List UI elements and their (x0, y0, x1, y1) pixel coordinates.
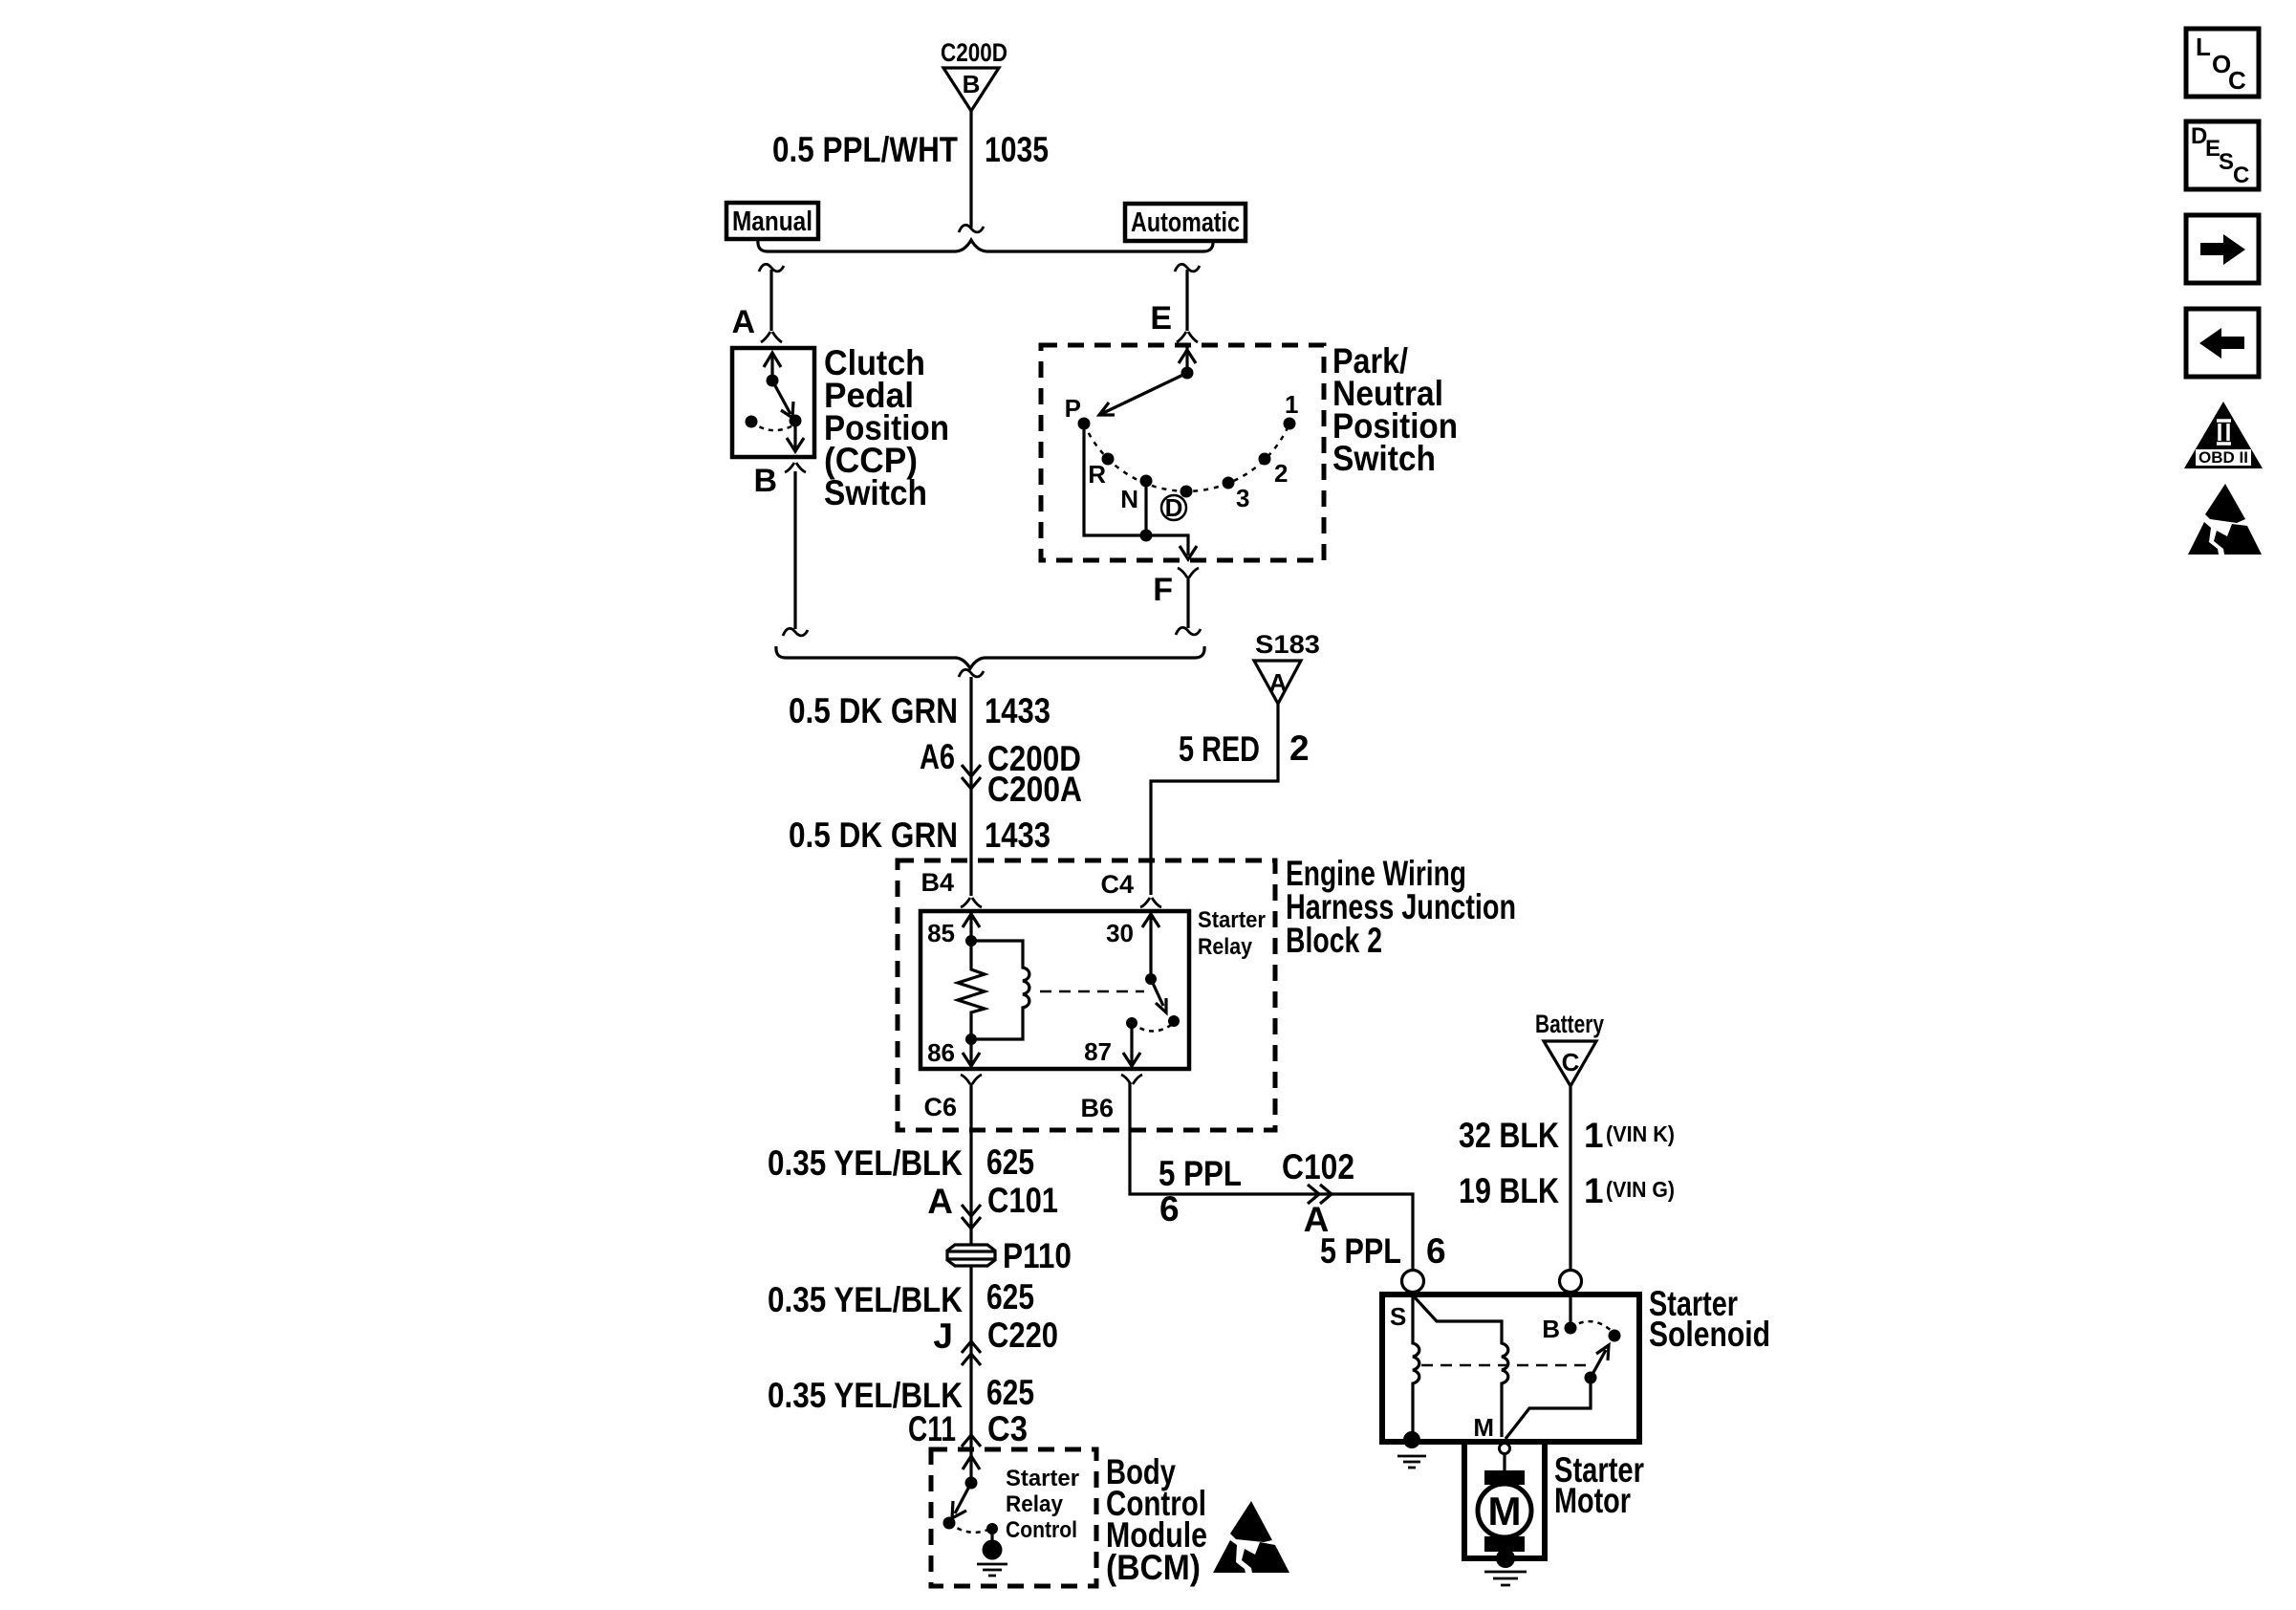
sidebar OBD II symbol (2184, 402, 2263, 468)
BCM input arrow (963, 1451, 980, 1483)
solenoid NO contact dot (1609, 1330, 1621, 1342)
Body Control Module dashed box (931, 1449, 1096, 1586)
svg-text:0.5 DK GRN: 0.5 DK GRN (789, 691, 958, 730)
CCP switch arm with arrowhead (772, 381, 793, 418)
relay coil (971, 941, 1029, 1039)
svg-text:OBD II: OBD II (2199, 448, 2248, 467)
svg-text:B4: B4 (921, 868, 954, 897)
svg-text:1: 1 (1285, 390, 1298, 419)
svg-text:B: B (753, 463, 777, 499)
PNP switch input arrow from E (1179, 346, 1196, 373)
relay NO contact dot (1168, 1015, 1180, 1027)
solenoid hold-in branch wire (1415, 1297, 1508, 1437)
starter relay label (1198, 907, 1266, 960)
connector symbol at F (1178, 568, 1199, 577)
wire break symbol below C200D wire (959, 225, 984, 232)
svg-text:S183: S183 (1255, 630, 1320, 659)
solenoid pull-in coil wire (1413, 1293, 1419, 1439)
svg-text:B: B (1542, 1315, 1560, 1343)
svg-text:(VIN G): (VIN G) (1606, 1177, 1675, 1202)
wire F down to splice brace (1186, 577, 1189, 628)
break symbol below bottom brace (959, 669, 984, 677)
wire branch E break symbol (1175, 264, 1200, 272)
starter relay box (921, 911, 1189, 1069)
relay resistor (958, 941, 985, 1039)
BCM switch arm with arrowhead (952, 1483, 971, 1518)
svg-text:A: A (927, 1182, 953, 1221)
fuse P110 symbol (947, 1245, 995, 1266)
motor wire from M terminal (1503, 1453, 1505, 1472)
wire 5 RED 2 from S183 (1151, 704, 1278, 895)
BCM starter relay control label (1006, 1466, 1079, 1543)
connector symbol below CCP switch (785, 463, 806, 472)
motor circle with M (1478, 1484, 1531, 1537)
PNP contact R dot (1102, 453, 1115, 466)
svg-text:M: M (1488, 1489, 1522, 1534)
connector symbol at A (761, 332, 782, 342)
Body Control Module (BCM) label (1106, 1452, 1207, 1587)
relay pin 87 arrow (1123, 1023, 1140, 1066)
starter motor box (1464, 1442, 1545, 1558)
connector symbol at E (1177, 332, 1198, 342)
Manual tag box (726, 203, 818, 239)
svg-text:C: C (2233, 163, 2249, 188)
relay pin 30 arrow (1142, 913, 1159, 979)
PNP contact N dot (1140, 475, 1153, 488)
svg-text:Automatic: Automatic (1131, 207, 1240, 238)
svg-text:1433: 1433 (985, 691, 1051, 730)
svg-text:625: 625 (986, 1142, 1034, 1182)
svg-text:P110: P110 (1003, 1236, 1072, 1275)
svg-text:1035: 1035 (985, 130, 1049, 169)
svg-text:Switch: Switch (1332, 439, 1436, 478)
solenoid S terminal ring (1402, 1271, 1424, 1293)
sidebar previous arrow button (2186, 309, 2259, 377)
svg-text:A: A (731, 304, 755, 340)
connector C200D triangle with pin B (943, 68, 999, 111)
svg-text:B6: B6 (1080, 1094, 1114, 1122)
connector C200D/C200A double chevron (962, 765, 981, 789)
svg-text:C200A: C200A (987, 770, 1082, 809)
PNP output arrow through border (1180, 546, 1197, 559)
svg-text:Motor: Motor (1554, 1481, 1631, 1520)
svg-text:625: 625 (986, 1373, 1034, 1412)
wire 0.5 PPL/WHT 1035 from C200D (969, 111, 972, 228)
svg-text:C: C (2228, 66, 2246, 95)
wire branch A (769, 270, 772, 331)
PNP selector arm with arrowhead (1099, 373, 1187, 415)
solenoid ground symbol (1397, 1456, 1426, 1468)
BCM driver stem (990, 1529, 993, 1542)
PNP contact D dot and circled D (1180, 486, 1193, 498)
svg-text:32 BLK: 32 BLK (1459, 1116, 1559, 1155)
svg-text:E: E (1150, 300, 1172, 337)
svg-text:F: F (1153, 572, 1173, 608)
svg-text:6: 6 (1159, 1189, 1180, 1229)
splice brace top (758, 240, 1213, 251)
CCP switch travel dashed arc (751, 422, 793, 430)
BCM contact travel dashed arc (949, 1523, 990, 1533)
PNP internal wire P to output (1084, 424, 1188, 555)
svg-text:Battery: Battery (1535, 1010, 1604, 1038)
Clutch Pedal Position (CCP) Switch box (732, 348, 814, 457)
svg-text:2: 2 (1274, 459, 1288, 488)
PNP internal wire from N (1144, 481, 1147, 535)
solenoid contact travel dashed arc (1570, 1321, 1614, 1333)
splice S183 triangle with pin A (1254, 661, 1301, 704)
svg-text:Relay: Relay (1198, 934, 1253, 960)
relay common contact dot (1145, 973, 1157, 985)
relay pin 87 dot (1126, 1017, 1137, 1029)
PNP contact 3 dot (1223, 477, 1235, 490)
relay pin 85 arrow (963, 913, 980, 941)
svg-text:Starter: Starter (1006, 1466, 1079, 1491)
svg-text:C3: C3 (987, 1409, 1028, 1448)
PNP contact P dot (1078, 418, 1091, 430)
PNP junction dot (1140, 530, 1153, 542)
svg-text:C6: C6 (923, 1093, 957, 1121)
svg-text:C102: C102 (1282, 1147, 1354, 1186)
svg-text:Starter: Starter (1198, 907, 1266, 933)
BCM switch pivot dot (965, 1477, 978, 1490)
wire B break symbol (783, 628, 808, 636)
BCM switch contact dot (943, 1517, 956, 1530)
Battery feed triangle with pin C (1544, 1041, 1596, 1086)
solenoid switch arm with arrowhead (1591, 1345, 1609, 1378)
svg-text:N: N (1120, 485, 1138, 513)
solenoid switch pivot dot (1585, 1372, 1597, 1384)
BCM internal ground (977, 1564, 1007, 1576)
connector symbol C6 (961, 1075, 982, 1084)
CCP switch label (824, 343, 949, 512)
svg-text:(VIN K): (VIN K) (1606, 1121, 1675, 1146)
solenoid ground dot (1403, 1431, 1420, 1448)
connector symbol B4 (961, 898, 982, 907)
relay actuation dashed line (1040, 990, 1144, 993)
CCP switch pivot dot (767, 375, 779, 387)
svg-text:M: M (1473, 1413, 1494, 1442)
svg-text:85: 85 (927, 919, 955, 947)
svg-text:A: A (1269, 668, 1288, 697)
sidebar ESD symbol (2188, 484, 2262, 555)
solenoid actuation dashed line (1421, 1364, 1587, 1367)
wire 0.35 YEL/BLK 625 upper (969, 1083, 972, 1246)
sidebar DESC button (2186, 121, 2259, 189)
CCP switch output arrow (787, 421, 804, 451)
svg-text:C4: C4 (1100, 870, 1134, 899)
relay contact travel dashed arc (1132, 1023, 1174, 1032)
svg-text:1: 1 (1584, 1171, 1604, 1210)
solenoid B contact wire and dot (1569, 1293, 1571, 1324)
sidebar next arrow button (2186, 215, 2259, 283)
svg-text:0.35 YEL/BLK: 0.35 YEL/BLK (768, 1143, 963, 1183)
connector C220 double chevron (962, 1341, 981, 1365)
svg-text:5 RED: 5 RED (1179, 729, 1260, 769)
svg-text:87: 87 (1084, 1037, 1112, 1066)
solenoid arm to M terminal (1505, 1378, 1591, 1439)
splice brace bottom (776, 646, 1204, 668)
BCM driver ball (983, 1540, 1003, 1560)
relay switch arm with arrowhead (1151, 979, 1166, 1012)
svg-text:(BCM): (BCM) (1106, 1548, 1201, 1587)
svg-text:Relay: Relay (1006, 1491, 1064, 1517)
solenoid M terminal ring (1500, 1444, 1510, 1454)
PNP pivot dot (1181, 367, 1194, 380)
svg-text:625: 625 (986, 1277, 1034, 1316)
ESD warning symbol near BCM (1213, 1501, 1289, 1573)
svg-text:A6: A6 (920, 737, 955, 776)
wire from battery (1569, 1086, 1571, 1271)
wire 5 PPL 6 from B6 (1130, 1083, 1413, 1271)
Engine Wiring Harness Junction Block 2 label (1286, 854, 1516, 960)
svg-text:R: R (1088, 460, 1106, 489)
svg-text:C11: C11 (908, 1409, 956, 1448)
sidebar LOC button (2186, 29, 2259, 97)
wire 0.35 YEL/BLK 625 middle (969, 1266, 972, 1451)
svg-text:0.5 DK GRN: 0.5 DK GRN (789, 816, 958, 855)
PNP dashed travel arc (1084, 424, 1289, 491)
connector C102 double chevron (1308, 1185, 1332, 1204)
svg-text:Block 2: Block 2 (1286, 921, 1382, 960)
relay coil top node dot (965, 935, 977, 946)
svg-text:30: 30 (1106, 919, 1134, 947)
wire branch E (1185, 270, 1188, 331)
svg-text:0.35 YEL/BLK: 0.35 YEL/BLK (768, 1280, 963, 1319)
svg-text:3: 3 (1236, 484, 1249, 512)
svg-text:C200D: C200D (941, 38, 1007, 67)
svg-text:S: S (2219, 149, 2234, 175)
motor brush top (1484, 1470, 1525, 1485)
Automatic tag box (1125, 204, 1245, 241)
connector symbol B6 (1121, 1075, 1142, 1084)
svg-text:5 PPL: 5 PPL (1159, 1154, 1242, 1193)
svg-text:2: 2 (1289, 729, 1310, 768)
relay pin 86 arrow (963, 1039, 980, 1066)
svg-text:Manual: Manual (732, 207, 812, 237)
Park/Neutral Position Switch label (1332, 341, 1458, 478)
svg-text:Switch: Switch (824, 473, 927, 512)
svg-text:D: D (1165, 493, 1183, 522)
wire B down to splice brace (793, 471, 796, 629)
PNP contact 2 dot (1259, 453, 1271, 466)
CCP switch contact dot B side (790, 415, 802, 427)
svg-text:5 PPL: 5 PPL (1320, 1231, 1401, 1271)
PNP contact 1 dot (1284, 418, 1296, 430)
starter motor label (1554, 1450, 1644, 1520)
svg-text:B: B (963, 70, 981, 98)
svg-text:1433: 1433 (985, 816, 1051, 855)
svg-text:P: P (1065, 394, 1081, 423)
svg-text:C: C (1562, 1048, 1580, 1077)
motor ground dot (1496, 1549, 1515, 1568)
svg-text:S: S (1390, 1302, 1406, 1331)
motor ground symbol (1484, 1572, 1527, 1585)
connector C3 chevron (962, 1435, 981, 1447)
wire F break symbol (1176, 627, 1201, 635)
svg-text:0.5 PPL/WHT: 0.5 PPL/WHT (772, 130, 958, 169)
solenoid B terminal ring (1560, 1271, 1582, 1293)
starter solenoid label (1649, 1284, 1770, 1354)
connector C101 double chevron (962, 1205, 981, 1229)
motor brush bottom (1484, 1536, 1525, 1552)
svg-text:6: 6 (1426, 1231, 1446, 1271)
svg-text:1: 1 (1584, 1116, 1604, 1155)
connector symbol C4 (1140, 898, 1161, 907)
svg-text:Solenoid: Solenoid (1649, 1315, 1770, 1354)
svg-text:86: 86 (927, 1038, 955, 1067)
Park/Neutral Position Switch dashed box (1041, 345, 1324, 560)
wire 0.5 DK GRN 1433 trunk (969, 677, 972, 896)
svg-text:C101: C101 (987, 1181, 1058, 1220)
CCP switch alternate contact dot (746, 416, 758, 428)
CCP switch input arrow (764, 353, 781, 381)
svg-text:L: L (2196, 33, 2211, 61)
svg-text:C220: C220 (987, 1316, 1058, 1355)
wire branch A break symbol (759, 264, 784, 272)
starter solenoid box (1382, 1295, 1639, 1442)
Engine Wiring Harness Junction Block 2 dashed box (898, 860, 1275, 1130)
relay coil bottom node dot (965, 1033, 977, 1045)
svg-text:J: J (933, 1316, 953, 1356)
BCM driver contact dot (986, 1523, 998, 1534)
svg-text:Control: Control (1006, 1517, 1077, 1543)
svg-text:19 BLK: 19 BLK (1459, 1171, 1559, 1210)
